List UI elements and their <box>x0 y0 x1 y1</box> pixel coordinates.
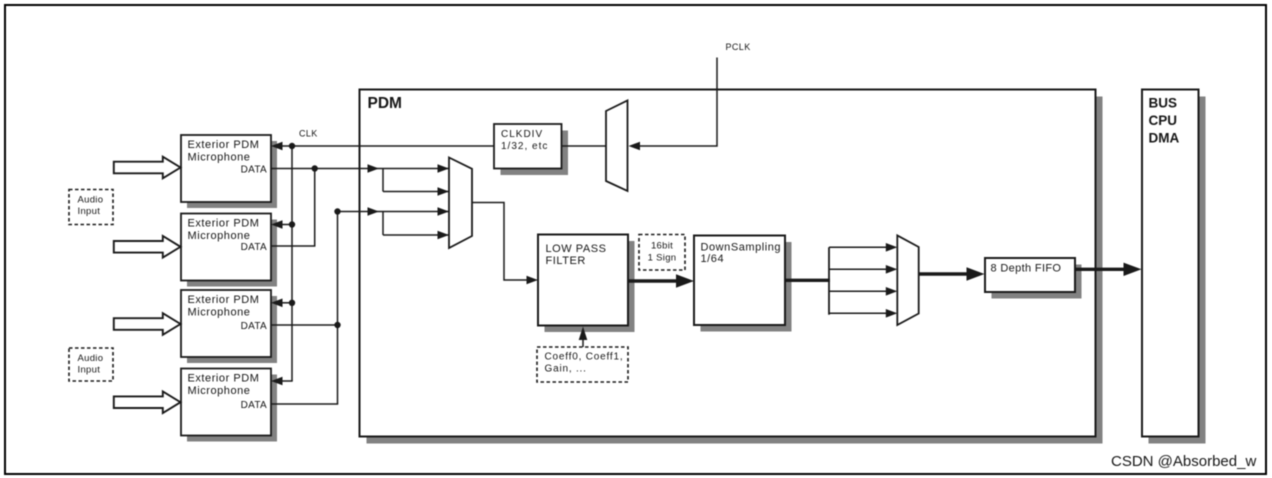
svg-text:Exterior PDM: Exterior PDM <box>188 373 260 385</box>
junction dot DATA B top <box>334 208 340 214</box>
wire DATA mic2 horizontal <box>271 245 315 247</box>
wire CLK from CLKDIV to mic1 <box>281 145 494 147</box>
junction dot CLK mic3 <box>289 300 295 306</box>
svg-text:Microphone: Microphone <box>188 385 251 397</box>
svg-text:FILTER: FILTER <box>546 255 586 267</box>
svg-text:Microphone: Microphone <box>188 230 251 242</box>
wire fork A vertical <box>382 169 384 192</box>
wire DATA A mic1 to mux1 <box>271 168 449 170</box>
wire fork B vertical <box>382 212 384 236</box>
svg-text:CSDN @Absorbed_w: CSDN @Absorbed_w <box>1111 453 1256 470</box>
wire fork B lower branch <box>383 234 449 236</box>
wire fork A lower branch <box>383 191 449 193</box>
wire DownSampling output (thick) to splitter <box>785 279 830 282</box>
svg-text:16bit: 16bit <box>651 241 673 252</box>
svg-text:BUS: BUS <box>1149 96 1178 111</box>
node Coeff0, Coeff1, Gain (dashed) <box>537 347 628 382</box>
arrowhead DATA B entering PDM <box>368 207 380 216</box>
svg-text:DATA: DATA <box>241 400 267 411</box>
wire FIFO output (thick) to BUS <box>1075 268 1125 271</box>
block DownSampling 1/64 <box>694 236 792 332</box>
svg-text:Exterior PDM: Exterior PDM <box>188 294 260 306</box>
wire splitter bar <box>828 247 830 314</box>
mux3 clock selector <box>606 101 628 192</box>
wire CLK branch mic4 <box>281 380 293 382</box>
svg-text:DMA: DMA <box>1149 131 1180 146</box>
svg-text:Input: Input <box>78 206 101 217</box>
arrowhead into FIFO <box>967 267 985 280</box>
wire DATA mic3 horizontal <box>271 324 338 326</box>
junction dot CLK mic2 <box>289 221 295 227</box>
wire DATA B trunk down to mic4 <box>337 212 339 405</box>
arrowhead DATA A entering PDM <box>368 164 380 173</box>
wire Coeff box up to LPF <box>582 338 584 347</box>
block 8 Depth FIFO <box>985 258 1082 299</box>
svg-text:Microphone: Microphone <box>188 307 251 319</box>
svg-text:DATA: DATA <box>241 165 267 176</box>
wire splitter branch 2 <box>829 268 888 270</box>
arrowhead branch 3 into mux2 <box>886 287 898 296</box>
block BUS CPU DMA <box>1142 90 1206 444</box>
svg-text:PDM: PDM <box>368 95 402 112</box>
svg-text:DATA: DATA <box>241 321 267 332</box>
svg-text:Exterior PDM: Exterior PDM <box>188 218 260 230</box>
arrowhead into LPF <box>527 276 539 285</box>
arrowhead fork B into mux1 <box>438 231 450 240</box>
wire mux1 output to LPF <box>472 203 528 281</box>
arrowhead Coeff into LPF <box>579 327 588 341</box>
arrowhead into BUS <box>1124 263 1142 276</box>
mux1 input selector <box>449 158 472 249</box>
svg-text:Audio: Audio <box>78 353 104 364</box>
junction dot DATA A <box>312 165 318 171</box>
block Exterior PDM Microphone 1 <box>181 135 277 208</box>
wire LPF output (thick) to DownSampling <box>628 279 678 282</box>
svg-text:Coeff0, Coeff1,: Coeff0, Coeff1, <box>545 352 624 363</box>
svg-text:1/64: 1/64 <box>701 253 725 265</box>
block CLKDIV 1/32, etc <box>494 124 568 175</box>
PDM module box U_PDM <box>360 90 1103 444</box>
arrowhead DATA B into mux1 <box>438 207 450 216</box>
arrowhead DATA A into mux1 <box>438 164 450 173</box>
svg-text:DATA: DATA <box>241 242 267 253</box>
svg-text:LOW PASS: LOW PASS <box>546 243 607 255</box>
arrowhead branch 1 into mux2 <box>886 243 898 252</box>
audio input block arrow 4 <box>114 391 181 413</box>
junction dot CLK mic1 <box>289 143 295 149</box>
svg-text:CLK: CLK <box>299 129 318 139</box>
svg-text:Microphone: Microphone <box>188 152 251 164</box>
junction dot DATA B mic3 <box>334 322 340 328</box>
wire CLK branch mic2 <box>281 224 292 226</box>
wire splitter branch 4 <box>829 312 888 314</box>
block Exterior PDM Microphone 2 <box>181 214 277 287</box>
wire DATA B to mux1 <box>338 211 450 213</box>
wire splitter branch 3 <box>829 290 888 292</box>
arrowhead CLK into mic1 <box>271 142 283 151</box>
svg-text:Exterior PDM: Exterior PDM <box>188 139 260 151</box>
mux2 output selector <box>897 235 918 325</box>
svg-text:Input: Input <box>78 365 101 376</box>
svg-text:CPU: CPU <box>1149 113 1178 128</box>
node Audio Input 2 (dashed) <box>69 348 113 381</box>
arrowhead into DownSampling <box>676 274 694 287</box>
arrowhead fork A into mux1 <box>438 187 450 196</box>
svg-text:1/32, etc: 1/32, etc <box>501 141 548 152</box>
svg-text:Audio: Audio <box>78 195 104 206</box>
svg-text:CLKDIV: CLKDIV <box>501 129 543 140</box>
svg-text:8 Depth FIFO: 8 Depth FIFO <box>991 263 1062 275</box>
arrowhead CLK into mic4 <box>271 377 283 386</box>
wire splitter branch 1 <box>829 246 888 248</box>
block Exterior PDM Microphone 3 <box>181 290 277 363</box>
wire PCLK down and into mux3 <box>639 58 717 147</box>
arrowhead branch 2 into mux2 <box>886 265 898 274</box>
block Exterior PDM Microphone 4 <box>181 369 277 442</box>
audio input block arrow 1 <box>114 157 181 179</box>
node Audio Input 1 (dashed) <box>69 190 113 225</box>
wire CLKDIV to mux3 <box>562 145 607 147</box>
arrowhead PCLK into mux3 <box>629 142 641 151</box>
node 16bit 1 Sign (dashed) <box>639 235 685 271</box>
audio input block arrow 3 <box>114 313 181 335</box>
svg-text:PCLK: PCLK <box>726 42 751 52</box>
arrowhead CLK into mic2 <box>271 220 283 229</box>
svg-text:DownSampling: DownSampling <box>701 242 782 254</box>
block LOW PASS FILTER <box>538 235 635 333</box>
arrowhead branch 4 into mux2 <box>886 309 898 318</box>
svg-text:Gain, ...: Gain, ... <box>545 364 587 375</box>
wire CLK branch mic3 <box>281 302 292 304</box>
audio input block arrow 2 <box>114 236 181 258</box>
arrowhead CLK into mic3 <box>271 299 283 308</box>
wire CLK trunk vertical <box>291 146 293 381</box>
wire mux2 output (thick) to FIFO <box>919 272 968 275</box>
svg-text:1 Sign: 1 Sign <box>648 253 677 264</box>
wire DATA A trunk down to mic2 <box>314 169 316 247</box>
wire DATA mic4 horizontal <box>271 403 338 405</box>
